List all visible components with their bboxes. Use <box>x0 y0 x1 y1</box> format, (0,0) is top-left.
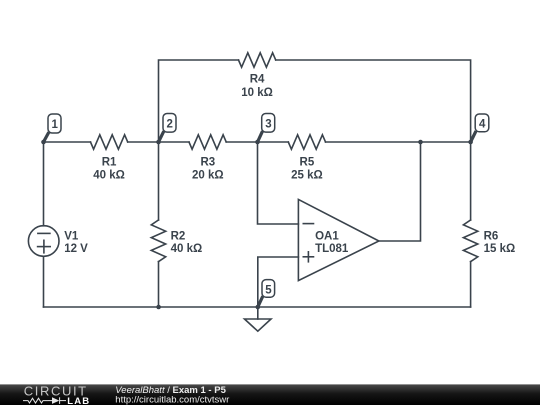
svg-text:http://circuitlab.com/ctvtswr: http://circuitlab.com/ctvtswr <box>115 395 229 405</box>
svg-text:LAB: LAB <box>67 396 90 405</box>
svg-text:R5: R5 <box>300 157 315 169</box>
svg-text:3: 3 <box>265 119 271 131</box>
svg-text:R1: R1 <box>102 157 117 169</box>
svg-text:10 kΩ: 10 kΩ <box>241 87 273 99</box>
svg-text:R6: R6 <box>484 230 499 242</box>
svg-text:15 kΩ: 15 kΩ <box>484 243 516 255</box>
svg-text:40 kΩ: 40 kΩ <box>93 169 125 181</box>
svg-text:R4: R4 <box>250 74 265 86</box>
svg-text:25 kΩ: 25 kΩ <box>291 169 323 181</box>
svg-text:20 kΩ: 20 kΩ <box>192 169 224 181</box>
svg-text:V1: V1 <box>64 230 79 242</box>
svg-text:OA1: OA1 <box>315 230 339 242</box>
svg-text:4: 4 <box>479 119 486 131</box>
svg-text:TL081: TL081 <box>315 243 349 255</box>
svg-text:2: 2 <box>166 119 172 131</box>
svg-text:1: 1 <box>51 119 58 131</box>
svg-text:40 kΩ: 40 kΩ <box>171 243 203 255</box>
svg-text:12 V: 12 V <box>64 243 88 255</box>
svg-text:5: 5 <box>265 285 272 297</box>
svg-text:R3: R3 <box>200 157 215 169</box>
svg-text:R2: R2 <box>171 230 186 242</box>
